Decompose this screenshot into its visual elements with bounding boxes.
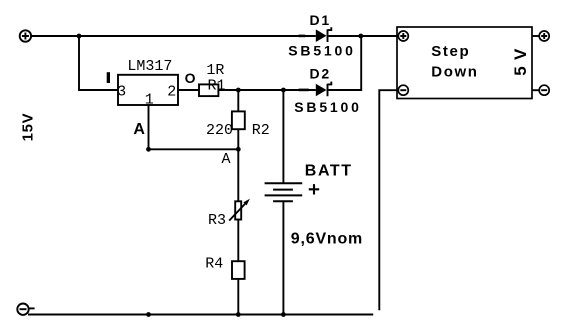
wire D2 cathode riser [328, 36, 361, 90]
resistor R2 [232, 111, 245, 129]
terminal + step-down output [539, 31, 549, 41]
svg-text:SB5100: SB5100 [294, 99, 361, 115]
svg-text:R4: R4 [205, 255, 223, 272]
wire dash artifact D1 anode [299, 35, 306, 38]
resistor R3 (variable) [235, 201, 241, 219]
terminal - step-down output [539, 85, 549, 95]
regulator U1 LM317 box [118, 75, 178, 105]
svg-text:A: A [133, 121, 145, 138]
label battery + [309, 184, 319, 194]
wire battery bottom to bus [282, 201, 284, 314]
wire input drop to LM317 pin 3 [79, 36, 118, 90]
terminal - step-down input [398, 85, 408, 95]
wire bottom bus [28, 314, 373, 316]
node pin1 corner junction [146, 147, 151, 152]
wire pin 2 to R1 [178, 89, 199, 91]
wire A horizontal [149, 148, 239, 150]
wire D1 cathode to step-down [328, 35, 397, 37]
wire battery top feed [282, 90, 284, 183]
node R1 output junction [236, 88, 241, 93]
wire R1 to D2 anode [218, 89, 315, 91]
terminal + step-down input [398, 31, 408, 41]
svg-text:2: 2 [167, 83, 176, 100]
svg-text:SB5100: SB5100 [288, 43, 355, 59]
svg-text:O: O [185, 70, 196, 86]
diode D2 [316, 82, 332, 97]
svg-text:D1: D1 [310, 12, 332, 28]
svg-text:D2: D2 [310, 65, 332, 81]
node bus junction battery [281, 312, 286, 317]
wire R3 to R4 [237, 220, 239, 262]
svg-text:5 V: 5 V [511, 48, 530, 76]
svg-text:R3: R3 [208, 212, 226, 229]
wire dash artifact D2 anode [299, 89, 309, 92]
label I (input) [107, 72, 110, 83]
resistor R1 [199, 84, 218, 96]
wire pin 1 drop [148, 105, 150, 149]
svg-text:Down: Down [431, 63, 478, 80]
wire R4 to bottom bus [237, 279, 239, 315]
node A junction at R2 bottom [236, 147, 241, 152]
svg-text:A: A [222, 151, 231, 168]
wire drop to R2 [237, 90, 239, 111]
svg-text:LM317: LM317 [127, 58, 172, 75]
wire step-down + output stub [532, 35, 539, 37]
node bus junction left [146, 312, 151, 317]
svg-text:15V: 15V [20, 113, 37, 142]
svg-text:220: 220 [206, 122, 233, 139]
wire minus stub [29, 307, 34, 309]
terminal + input [20, 30, 31, 41]
step-down converter U2 box [397, 27, 532, 99]
node input junction [77, 34, 82, 39]
battery BATT [265, 183, 303, 201]
svg-text:R2: R2 [252, 122, 270, 139]
node D2 riser junction [358, 34, 363, 39]
node bus junction R4 [236, 312, 241, 317]
R3 wiper arrow [229, 199, 250, 221]
diode D1 [316, 27, 332, 42]
svg-text:Step: Step [431, 43, 470, 60]
terminal - input [17, 304, 28, 315]
wire step-down - output stub [532, 89, 539, 91]
wire top bus from + input to D1 anode [31, 35, 316, 37]
svg-text:R1: R1 [208, 77, 226, 94]
wire R2 bottom to R3 top [237, 129, 239, 201]
svg-text:3: 3 [117, 84, 126, 101]
svg-text:9,6Vnom: 9,6Vnom [291, 231, 363, 248]
wire step-down minus return [379, 90, 398, 310]
node battery feed junction [281, 88, 286, 93]
svg-text:BATT: BATT [305, 163, 353, 180]
svg-text:1R: 1R [206, 62, 224, 79]
resistor R4 [232, 261, 245, 279]
